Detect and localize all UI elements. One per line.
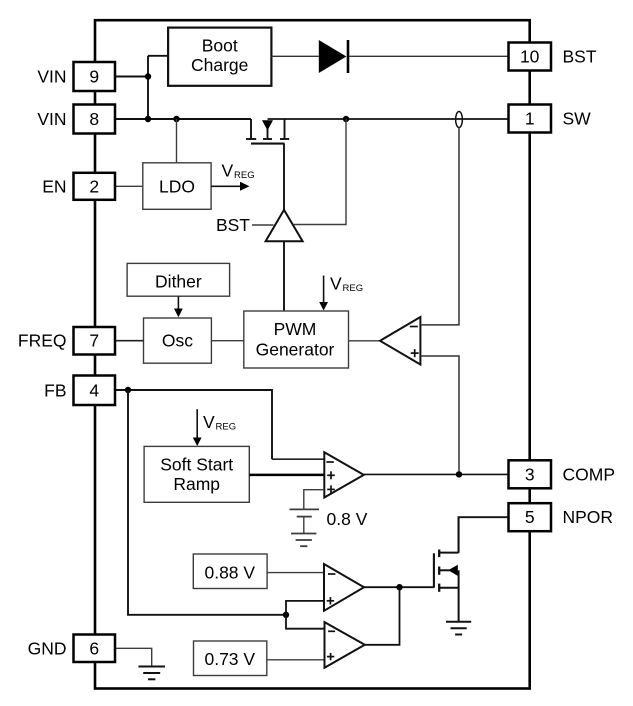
pin 8 (VIN): [74, 105, 116, 134]
current sense loop on SW rail: [456, 112, 463, 128]
minus sign U4: [328, 573, 335, 575]
svg-text:8: 8: [89, 109, 99, 129]
ground (GND pin): [138, 666, 165, 668]
svg-text:FB: FB: [44, 381, 66, 401]
wire pin 7 to Osc: [115, 340, 144, 342]
svg-text:FREQ: FREQ: [18, 331, 67, 351]
body diode arrow: [267, 129, 269, 139]
pin 1 (SW): [509, 105, 552, 133]
svg-text:0.8 V: 0.8 V: [327, 509, 368, 529]
svg-text:REG: REG: [234, 170, 255, 181]
block Dither: [127, 263, 230, 296]
gate bar: [251, 143, 285, 145]
svg-text:PWM: PWM: [274, 319, 317, 339]
wire pin9 to bus: [115, 76, 148, 78]
node bootstrap tap on SW rail: [343, 116, 349, 122]
wire Osc to PWM generator: [211, 340, 243, 342]
node junction pin9/bus: [145, 73, 151, 79]
wire 0.73 V to comparator U5 plus: [267, 659, 325, 661]
drain lead: [458, 517, 460, 552]
wire LDO supply drop: [176, 119, 178, 163]
wire FB to U5 minus: [286, 615, 325, 629]
wire FB to U4 plus: [286, 601, 324, 615]
power MOSFET M1 high-side: [246, 119, 289, 144]
svg-text:EN: EN: [42, 176, 66, 196]
wire U5 output up to gate node: [365, 587, 400, 645]
wire VREG supply into soft start: [196, 409, 198, 439]
source contact: [438, 584, 440, 592]
wire U2 minus input to current sense: [420, 128, 459, 325]
wire pin 2 to LDO: [115, 185, 143, 187]
svg-text:Generator: Generator: [256, 340, 335, 360]
body diode arrow Q1: [448, 565, 458, 576]
drain contact: [438, 550, 440, 558]
node FB junction: [125, 387, 131, 393]
ground (Q1 source): [446, 621, 471, 623]
node junction LDO tap: [173, 116, 179, 122]
wire diode to pin 10: [349, 55, 509, 57]
pin 10 (BST): [509, 43, 552, 71]
pin 7 (FREQ): [74, 327, 116, 355]
svg-text:V: V: [203, 412, 215, 432]
wire U2 plus input to COMP net: [420, 356, 459, 474]
plus sign U4: [327, 600, 334, 602]
wire FB node to error amp minus: [115, 390, 272, 459]
svg-text:Ramp: Ramp: [173, 474, 220, 494]
op-amp error amplifier U3: [324, 452, 364, 497]
wire error amp output to COMP pin: [364, 473, 509, 475]
svg-text:NPOR: NPOR: [563, 507, 614, 527]
pin 5 (NPOR): [509, 503, 552, 531]
minus sign U5: [328, 630, 335, 632]
svg-text:Dither: Dither: [155, 271, 202, 291]
op-amp comparator U4 (0.88 V): [324, 564, 364, 611]
svg-text:2: 2: [89, 176, 99, 196]
pin 6 (GND): [74, 635, 116, 663]
block Osc: [144, 318, 212, 363]
svg-text:BST: BST: [216, 215, 250, 235]
voltage reference 0.8 V: [290, 508, 319, 510]
svg-text:V: V: [222, 160, 234, 180]
svg-text:BST: BST: [563, 47, 597, 67]
minus sign U2: [410, 326, 418, 328]
body/source lead to ground: [458, 570, 460, 622]
svg-text:0.88 V: 0.88 V: [204, 563, 255, 583]
body contact: [438, 567, 440, 575]
block reference 0.73 V: [194, 641, 267, 676]
plus sign U2: [411, 352, 419, 354]
svg-text:V: V: [330, 273, 342, 293]
svg-text:Charge: Charge: [191, 55, 248, 75]
minus sign U3: [326, 461, 333, 463]
svg-text:0.73 V: 0.73 V: [204, 649, 255, 669]
block Boot Charge: [168, 28, 271, 86]
svg-text:3: 3: [525, 464, 535, 484]
pin 2 (EN): [74, 173, 116, 200]
wire comparator outputs to Q1 gate: [364, 586, 434, 588]
wire PWM comparator output to PWM generator: [349, 340, 381, 342]
wire 0.88 V to comparator U4 minus: [267, 572, 324, 574]
source lead: [284, 119, 286, 139]
wire driver input from PWM generator: [283, 241, 285, 311]
wire VREG supply into PWM generator: [323, 276, 325, 304]
drain lead: [250, 119, 252, 139]
wire soft start to error amp plus: [249, 474, 324, 477]
transistor Q1 NPOR pulldown: [434, 517, 459, 622]
op-amp PWM comparator U2: [380, 317, 420, 365]
op-amp comparator U5 (0.73 V): [325, 622, 365, 668]
gate driver buffer U1: [266, 210, 303, 241]
node FB comparator junction: [283, 612, 289, 618]
diode D1 boot: [319, 40, 347, 73]
node gate junction: [396, 584, 402, 590]
wire dither to osc arrow: [177, 296, 179, 309]
wire gate driver to FET gate: [283, 144, 285, 210]
wire BST dash to driver: [252, 224, 274, 226]
svg-text:LDO: LDO: [159, 177, 195, 197]
plus sign U5: [327, 656, 334, 658]
gate plate: [433, 553, 435, 587]
node COMP junction: [456, 471, 462, 477]
svg-text:Boot: Boot: [202, 35, 238, 55]
svg-text:1: 1: [525, 109, 535, 129]
IC boundary: [95, 20, 530, 688]
wire VIN rail pin8 to FET drain: [115, 118, 251, 120]
plus sign U3 (lower): [327, 488, 335, 490]
block reference 0.88 V: [193, 554, 267, 589]
block PWM Generator: [244, 311, 349, 368]
pin 3 (COMP): [509, 460, 552, 488]
wire VIN vertical bus x=148: [147, 56, 149, 119]
ground (0.8 V reference): [291, 533, 316, 535]
svg-text:SW: SW: [563, 109, 592, 129]
wire error amp ref input: [304, 490, 325, 510]
block Soft Start Ramp: [144, 446, 249, 502]
svg-text:REG: REG: [343, 283, 364, 294]
pin 9 (VIN): [74, 62, 116, 91]
svg-text:Soft Start: Soft Start: [160, 454, 233, 474]
block LDO: [143, 163, 211, 210]
svg-text:VIN: VIN: [37, 67, 66, 87]
wire GND pin to ground: [115, 648, 152, 666]
wire FB sense down to supervisor comparators: [128, 390, 286, 615]
plus sign U3 (mid): [327, 474, 335, 476]
svg-text:10: 10: [520, 47, 540, 67]
pin 4 (FB): [74, 376, 116, 406]
svg-text:VIN: VIN: [37, 109, 66, 129]
wire SW rail FET source to pin 1: [268, 118, 509, 120]
wire boot charge to diode: [271, 55, 318, 57]
svg-text:6: 6: [89, 638, 99, 658]
wire NPOR pin to FET drain: [459, 517, 509, 553]
svg-text:Osc: Osc: [162, 331, 193, 351]
wire boot charge input: [148, 55, 168, 57]
svg-text:9: 9: [89, 67, 99, 87]
node junction bus/rail: [145, 116, 151, 122]
svg-text:7: 7: [89, 331, 99, 351]
svg-text:4: 4: [89, 381, 99, 401]
svg-text:COMP: COMP: [563, 464, 616, 484]
svg-text:5: 5: [525, 507, 535, 527]
wire LDO output VREG arrow: [211, 185, 242, 187]
svg-text:REG: REG: [216, 422, 237, 433]
wire bootstrap to driver: [294, 119, 347, 225]
svg-text:GND: GND: [28, 638, 67, 658]
